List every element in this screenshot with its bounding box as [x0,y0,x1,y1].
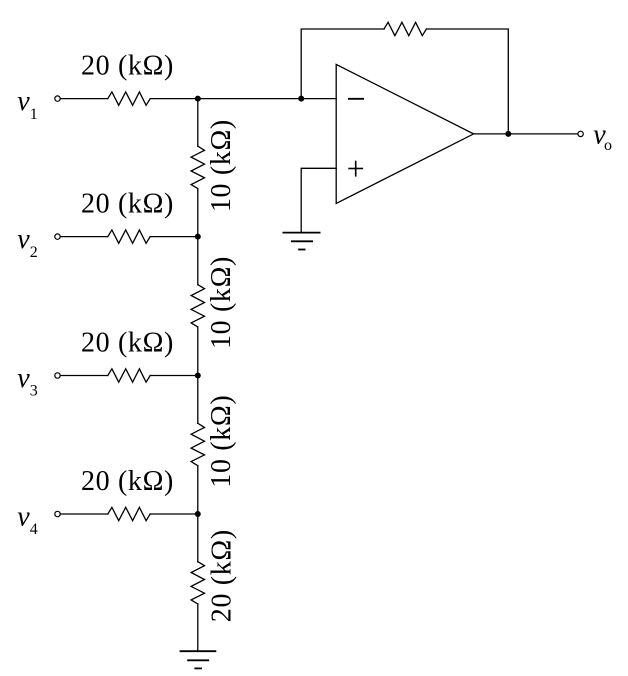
resistor R1 20 kOhm (v1 input) [108,92,150,105]
svg-text:10 (kΩ): 10 (kΩ) [206,256,237,349]
wire ladder segment node4 to R8 [197,514,199,562]
wire feedback right vertical to output [426,29,508,134]
node junction dot inverting input [298,96,304,102]
wire v3 row to ladder [150,375,198,377]
svg-text:20 (kΩ): 20 (kΩ) [81,327,174,358]
svg-text:v: v [17,363,30,394]
ground (op-amp + input) [283,233,319,250]
svg-text:10 (kΩ): 10 (kΩ) [206,119,237,212]
wire feedback left vertical [301,29,384,99]
resistor R6 10 kOhm (ladder v2-v3) [191,285,204,327]
node junction dot v1 [195,96,201,102]
wire v1 row to op-amp inverting input [150,98,336,100]
svg-text:o: o [604,137,612,154]
wire v4 row to ladder [150,513,198,515]
svg-text:2: 2 [30,244,38,261]
wire output [474,133,578,135]
node junction dot v2 [195,234,201,240]
node junction dot v3 [195,373,201,379]
node v2 input terminal [55,234,60,239]
resistor R3 20 kOhm (v3 input) [108,369,150,382]
wire ladder segment node2 to R6 [197,237,199,285]
svg-text:20 (kΩ): 20 (kΩ) [81,466,174,497]
node vo output terminal [578,131,583,136]
svg-text:1: 1 [30,106,38,123]
wire ladder R6 to node3 [197,327,199,376]
svg-text:10 (kΩ): 10 (kΩ) [206,395,237,488]
node v4 input terminal [55,511,60,516]
wire v2 row to ladder [150,236,198,238]
ground (bottom of ladder) [181,651,216,668]
wire ladder R8 to ground [197,604,199,651]
wire ladder R7 to node4 [197,466,199,514]
resistor R4 20 kOhm (v4 input) [108,507,150,520]
resistor R2 20 kOhm (v2 input) [108,230,150,243]
op-amp minus symbol [349,98,363,100]
node junction dot output [505,131,511,137]
svg-text:v: v [17,502,30,533]
wire v3 terminal to R3 [60,375,108,377]
node v1 input terminal [55,96,60,101]
wire ladder segment node3 to R7 [197,376,199,424]
wire ladder R5 to node2 [197,189,199,237]
op-amp plus symbol [349,162,362,176]
svg-text:v: v [17,86,30,117]
resistor R8 20 kOhm (ladder to ground) [191,562,204,604]
wire v2 terminal to R2 [60,236,108,238]
wire v4 terminal to R4 [60,513,108,515]
wire op-amp noninverting input to ground [301,168,336,232]
svg-text:20 (kΩ): 20 (kΩ) [81,189,174,220]
resistor R5 10 kOhm (ladder v1-v2) [191,146,204,188]
resistor R7 10 kOhm (ladder v3-v4) [191,423,204,465]
op-amp U1 [336,64,473,203]
wire ladder segment node1 to R5 [197,99,199,147]
resistor R9 feedback [384,22,426,35]
wire v1 terminal to R1 [60,98,108,100]
svg-text:v: v [17,224,30,255]
svg-text:20 (kΩ): 20 (kΩ) [207,529,238,622]
svg-text:3: 3 [30,383,38,400]
svg-text:4: 4 [30,521,38,538]
node v3 input terminal [55,373,60,378]
svg-text:20 (kΩ): 20 (kΩ) [81,51,174,82]
node junction dot v4 [195,511,201,517]
